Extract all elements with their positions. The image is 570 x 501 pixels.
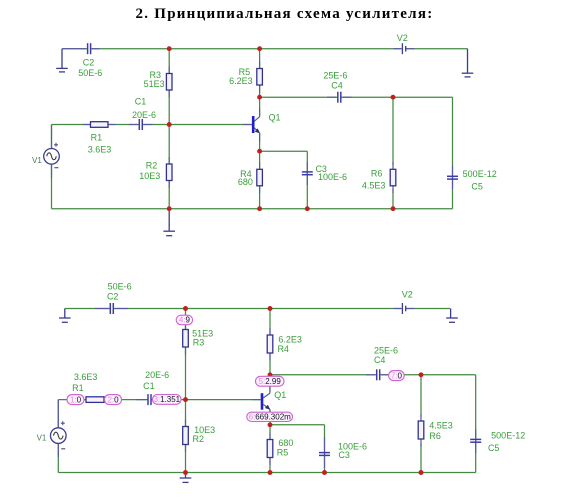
junction emitter node (schematic 1) [257,149,262,154]
svg-text:50E-6: 50E-6 [78,68,102,78]
svg-text:R1: R1 [91,133,103,143]
wire C5 column (schematic 1) [452,97,454,209]
svg-text:4:9: 4:9 [179,316,191,325]
junction ground node bottom rail (schematic 1) [167,206,172,211]
junction node 7 at R6 top (schematic 2) [419,372,424,377]
wire V1 top lead column (schematic 1) [51,125,53,150]
svg-text:R1: R1 [72,383,84,393]
wire R2 column (schematic 1) [168,125,170,209]
svg-text:20E-6: 20E-6 [145,370,169,380]
junction R6 top node (schematic 1) [391,95,396,100]
wire emitter stub (schematic 2) [269,409,271,424]
wire collector stub (schematic 2) [269,375,271,392]
source V1 (schematic 2) [51,400,67,457]
wire bottom rail (schematic 2) [58,472,475,474]
svg-text:3:1.351: 3:1.351 [153,395,180,404]
wire collector stub (schematic 1) [259,97,261,116]
node bubble 6:669.302m (schematic 2) [247,412,293,421]
junction node 4 at R3 top (schematic 2) [183,306,188,311]
svg-text:25E-6: 25E-6 [323,71,347,81]
resistor R5 (schematic 2) [267,433,273,466]
junction C3 bottom node (schematic 2) [322,470,327,475]
svg-text:V1: V1 [32,156,42,165]
svg-text:C3: C3 [338,450,350,460]
svg-text:C4: C4 [331,80,343,90]
svg-text:680: 680 [238,177,253,187]
svg-text:51E3: 51E3 [144,79,165,89]
svg-text:C5: C5 [488,443,500,453]
node bubble 5:2.99 (schematic 2) [256,376,285,386]
svg-text:R6: R6 [371,169,383,179]
wire V1 top lead column (schematic 2) [57,400,59,429]
svg-text:50E-6: 50E-6 [108,281,132,291]
node bubble 3:1.351 (schematic 2) [153,395,182,405]
svg-text:6.2E3: 6.2E3 [278,334,302,344]
junction R6 bottom node (schematic 1) [391,206,396,211]
capacitor C1 (schematic 2) [136,394,151,405]
svg-text:C1: C1 [143,381,155,391]
svg-text:R5: R5 [277,448,289,458]
svg-text:4.5E3: 4.5E3 [429,421,453,431]
svg-text:4.5E3: 4.5E3 [362,181,386,191]
capacitor C3 (schematic 2) [319,437,330,468]
capacitor C4 (schematic 2) [366,369,388,380]
svg-text:C4: C4 [374,355,386,365]
svg-text:Q1: Q1 [274,390,286,400]
wire bottom rail (schematic 1) [52,208,453,210]
wire R5 column (schematic 2) [269,425,271,473]
wire C5 column (schematic 2) [475,375,477,473]
junction C3 bottom node (schematic 1) [305,206,310,211]
wire R6 column upper (schematic 1) [392,97,394,165]
node bubble 1:0 (schematic 2) [67,395,84,405]
wire R4 column (schematic 1) [259,151,261,209]
svg-text:100E-6: 100E-6 [318,172,347,182]
battery V2 (schematic 2) [394,303,415,314]
junction node at R5 top (schematic 1) [257,46,262,51]
wire emitter stub (schematic 1) [259,133,261,151]
wire R3 column (schematic 1) [168,49,170,125]
junction base node 3 (schematic 2) [183,397,188,402]
svg-text:680: 680 [278,438,293,448]
capacitor C5 (schematic 1) [447,166,458,189]
resistor R6 (schematic 1) [390,162,396,193]
ground top-right (schematic 2) [446,309,458,323]
svg-text:2:0: 2:0 [107,395,119,404]
capacitor C4 (schematic 1) [327,92,352,103]
junction emitter node 6 (schematic 2) [268,422,273,427]
svg-text:R2: R2 [146,160,158,170]
node bubble 7:0 (schematic 2) [389,371,405,381]
junction collector node 5 (schematic 2) [268,372,273,377]
wire C3 column (schematic 1) [306,151,308,209]
svg-text:C2: C2 [107,292,119,302]
resistor R3 (schematic 2) [183,325,189,355]
ground top-right (schematic 1) [462,49,474,77]
junction node at R3 top (schematic 1) [167,46,172,51]
svg-text:6:669.302m: 6:669.302m [249,413,292,422]
svg-text:Q1: Q1 [268,113,280,123]
wire base row (schematic 2) [58,399,147,401]
svg-text:6.2E3: 6.2E3 [229,76,253,86]
resistor R1 (schematic 1) [83,122,116,128]
svg-text:C5: C5 [471,182,483,192]
wire R3 column (schematic 2) [185,309,187,400]
junction node at R4 top (schematic 2) [268,306,273,311]
wire base row (schematic 1) [52,124,139,126]
svg-text:20E-6: 20E-6 [132,110,156,120]
svg-text:R4: R4 [277,344,289,354]
svg-text:R6: R6 [429,431,441,441]
wire emitter row to C3 (schematic 1) [260,150,308,152]
wire V1 bottom lead column (schematic 1) [51,164,53,209]
node bubble 4:9 (schematic 2) [176,315,192,325]
capacitor C5 (schematic 2) [470,429,481,453]
svg-text:V2: V2 [402,289,413,299]
resistor R4 (schematic 1) [257,162,263,193]
ground top-left (schematic 1) [56,49,68,72]
junction ground node bottom rail (schematic 2) [183,470,188,475]
ground bottom (schematic 1) [163,209,175,236]
transistor Q1 (schematic 1) [243,109,260,142]
resistor R6 (schematic 2) [418,414,424,447]
capacitor C1 (schematic 1) [129,119,153,130]
wire C3 column (schematic 2) [324,425,326,473]
svg-text:5:2.99: 5:2.99 [259,377,282,386]
ground top-left (schematic 2) [59,309,71,323]
wire R6 column lower (schematic 1) [392,189,394,209]
wire R6 column upper (schematic 2) [420,375,422,417]
wire R6 column lower (schematic 2) [420,443,422,473]
svg-text:2. Принципиальная схема усилит: 2. Принципиальная схема усилителя: [136,6,434,22]
svg-text:R3: R3 [193,337,205,347]
svg-text:3.6E3: 3.6E3 [88,145,112,155]
junction R5 bottom node (schematic 2) [268,470,273,475]
wire emitter row to C3 (schematic 2) [270,424,325,426]
resistor R3 (schematic 1) [166,67,172,98]
junction R6 bottom node (schematic 2) [419,470,424,475]
svg-text:R2: R2 [193,434,205,444]
resistor R4 (schematic 2) [267,328,273,361]
resistor R5 (schematic 1) [257,62,263,93]
wire collector row (schematic 1) [260,96,338,98]
battery V2 (schematic 1) [394,43,415,54]
svg-text:V1: V1 [37,434,47,443]
wire R5 column (schematic 1) [259,49,261,97]
svg-text:C1: C1 [135,97,147,107]
node bubble 2:0 (schematic 2) [105,395,122,405]
wire top rail (schematic 1) [62,48,87,50]
capacitor C2 (schematic 1) [62,43,100,54]
wire R4 column (schematic 2) [269,309,271,375]
svg-text:3.6E3: 3.6E3 [74,372,98,382]
junction R4 bottom node (schematic 1) [257,206,262,211]
transistor Q1 (schematic 2) [253,385,271,413]
junction base node (schematic 1) [167,122,172,127]
capacitor C3 (schematic 1) [302,162,313,185]
wire collector row (schematic 2) [270,374,376,376]
junction collector node (schematic 1) [257,95,262,100]
svg-text:V2: V2 [397,33,408,43]
wire R2 column (schematic 2) [185,400,187,473]
svg-text:7:0: 7:0 [391,371,403,380]
svg-text:1:0: 1:0 [70,395,82,404]
svg-text:500E-12: 500E-12 [463,169,497,179]
svg-text:10E3: 10E3 [139,171,160,181]
source V1 (schematic 1) [44,125,60,179]
resistor R2 (schematic 2) [183,420,189,453]
svg-text:500E-12: 500E-12 [491,431,525,441]
wire V1 bottom lead column (schematic 2) [57,443,59,473]
ground bottom (schematic 2) [180,473,192,483]
wire top rail (schematic 2) [65,308,110,310]
svg-text:C2: C2 [83,57,95,67]
resistor R2 (schematic 1) [166,157,172,188]
resistor R1 (schematic 2) [86,397,104,403]
capacitor C2 (schematic 2) [95,303,128,314]
